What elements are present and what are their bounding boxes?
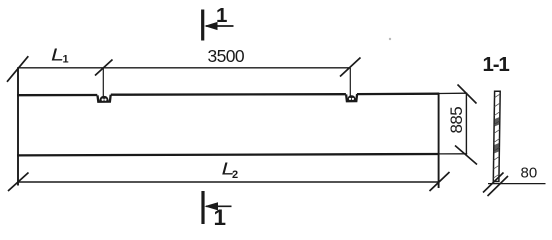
tick at left end xyxy=(7,56,28,82)
extension line second pocket xyxy=(349,68,351,97)
section mark 1 (bottom) bar xyxy=(201,191,204,224)
svg-text:1: 1 xyxy=(63,54,69,66)
section mark 1 (top) bar xyxy=(201,10,204,41)
panel outline: top edge xyxy=(17,94,439,96)
svg-text:2: 2 xyxy=(232,169,238,181)
svg-text:1: 1 xyxy=(216,4,227,27)
svg-text:1: 1 xyxy=(214,205,227,230)
dimension line 80 xyxy=(488,183,546,185)
dimension 885 (right of panel) xyxy=(439,85,477,165)
label L1 xyxy=(51,45,69,66)
panel outline: right edge / extension xyxy=(438,94,440,188)
dimension line 885 xyxy=(465,93,467,154)
tick top xyxy=(458,85,477,104)
section 1-1 panel cross-section bar xyxy=(489,91,503,181)
lifting pocket (left) xyxy=(98,95,111,102)
tick at first pocket xyxy=(95,60,113,76)
lifting pocket (right) xyxy=(346,94,357,102)
extension line top right xyxy=(439,92,467,94)
dimension line L2 (bottom) xyxy=(18,181,439,183)
svg-text:1-1: 1-1 xyxy=(483,53,510,76)
panel outline: bottom edge xyxy=(17,154,439,155)
tick right end L2 xyxy=(430,172,450,191)
dimension 80 (below section) xyxy=(483,165,546,197)
label L2 xyxy=(222,159,239,181)
svg-text:885: 885 xyxy=(447,107,466,134)
tick bottom xyxy=(455,146,477,165)
extension line first pocket xyxy=(102,68,104,97)
tick left end L2 xyxy=(8,173,29,192)
faint scan speck xyxy=(389,38,391,40)
dimension line L1 + 3500 (top) xyxy=(18,67,350,69)
svg-text:80: 80 xyxy=(521,165,538,182)
tick at second pocket xyxy=(340,58,361,77)
hatching xyxy=(489,92,503,181)
double tick xyxy=(483,173,504,193)
section mark 1 (bottom) arrow xyxy=(204,202,231,210)
extension line bottom right xyxy=(439,153,467,155)
section mark 1 (top) arrow xyxy=(204,22,233,30)
svg-text:3500: 3500 xyxy=(208,46,245,66)
panel outline: left edge / extension xyxy=(17,67,19,185)
